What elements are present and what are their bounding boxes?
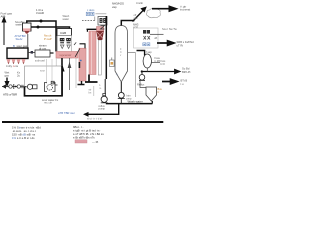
svg-text:aTB TBR ster: aTB TBR ster [58, 111, 75, 115]
component burner funnels under furnace [7, 59, 26, 64]
svg-text:vap: vap [112, 5, 117, 9]
svg-text:gas: gas [5, 75, 10, 78]
svg-text:s·: s· [100, 87, 102, 90]
component pink column B [89, 31, 96, 75]
wire thin riser with small up arrow [68, 58, 70, 90]
component blue condenser icons [86, 12, 94, 15]
svg-text:SRB s Fa8Tsd: SRB s Fa8Tsd [177, 40, 195, 44]
svg-text:b Fl: b Fl [161, 62, 166, 66]
svg-text:st ut ·tr ·t·d st·: st ut ·tr ·t·d st· [87, 118, 103, 121]
wire feed to small oval [137, 51, 145, 56]
component small marks before box on feed row [21, 84, 24, 86]
node legend pink swatch [75, 140, 87, 143]
wire wash water vertical [135, 53, 137, 98]
svg-text:SteAr: SteAr [16, 37, 23, 41]
wire V2 right to wash line [128, 52, 136, 54]
wire gray drop line [75, 58, 77, 88]
component C&B top box of column [57, 29, 72, 36]
component pump P1 under downcomer [101, 94, 108, 103]
component big pump box lower-left [25, 59, 63, 96]
svg-text:pmp: pmp [127, 97, 132, 100]
wire drum outlet tick [50, 52, 54, 54]
svg-text:— tB: — tB [92, 140, 98, 144]
svg-text:water: water [16, 23, 23, 27]
svg-text:s·Bt sBTs tBs sTs: s·Bt sBTs tBs sTs [73, 135, 95, 139]
wire black bracket feed into column A [80, 44, 86, 49]
component furnace box [7, 48, 28, 59]
svg-text:tr: tr [158, 90, 160, 94]
wire feed row left with components [2, 86, 26, 88]
wire left vertical with up arrow [2, 18, 6, 46]
wire dashed line to condensers [82, 20, 96, 22]
wire gray drop from bar left [55, 58, 57, 84]
svg-text:BtPLPt: BtPLPt [182, 70, 191, 74]
svg-text:3 AAR: 3 AAR [36, 11, 44, 15]
component small valve on wire [31, 51, 33, 54]
wire oval bottom to header [146, 68, 148, 72]
component small oval vessel [143, 54, 151, 68]
svg-text:water: water [63, 17, 70, 21]
wire main downcomer thick vertical [105, 16, 107, 79]
wire V1 bottom to furnace [27, 34, 29, 48]
svg-text:t u: t u [181, 82, 184, 86]
component pump P3 [139, 72, 145, 81]
svg-text:tr dB: tr dB [155, 59, 161, 63]
wire right thin line row [150, 33, 164, 35]
wire condenser drop [94, 17, 96, 21]
component pump icon 1 inside box [26, 84, 38, 89]
svg-text:sour: sour [40, 69, 45, 73]
component left arrowhead on feed row [2, 84, 6, 88]
wire V2 overhead to flare diagonal arrow [121, 7, 146, 25]
svg-text:B: B [13, 44, 15, 48]
svg-text:Reflux: Reflux [137, 83, 145, 87]
node junction dot reflux [141, 70, 143, 72]
svg-text:4 dry runs: 4 dry runs [6, 64, 19, 68]
svg-text:dr um: dr um [39, 46, 47, 50]
component big vessel V2 capsule [115, 26, 128, 83]
component tick and dot on feed row [13, 84, 15, 89]
svg-text:pump: pump [99, 108, 106, 111]
wire pentagon bottom to outlet line [151, 101, 153, 104]
wire black header over column B [87, 28, 99, 30]
svg-text:uB: uB [154, 36, 157, 40]
svg-text:Sou l Sw Tw: Sou l Sw Tw [162, 27, 177, 31]
svg-text:t incin: t incin [136, 1, 144, 5]
component small circle on feed row [9, 85, 12, 88]
component tray box above funnel [98, 17, 107, 30]
svg-text:sour gas: sour gas [17, 44, 28, 48]
component dark red funnel with X [96, 27, 104, 41]
svg-text:2u: 2u [17, 74, 20, 78]
node label left of P1 [93, 86, 95, 96]
node junction dot on line2 [37, 26, 40, 29]
wire black tee below column A [78, 81, 85, 85]
svg-text:1% s·tr·s·B sr t·ds: 1% s·tr·s·B sr t·ds [12, 136, 35, 140]
wire furnace to drum [28, 52, 35, 54]
wire small tick bottom of tower drop [55, 84, 58, 86]
component pink column A [79, 48, 86, 81]
component circle 2 on feed row [17, 85, 20, 88]
wire gray line condenser to downcomer [96, 13, 107, 15]
wire P1 outlet line to pentagon [106, 103, 153, 105]
svg-text:incinerat: incinerat [180, 8, 190, 12]
component column tower body [58, 36, 72, 59]
wire oval outlet right [152, 62, 161, 64]
wire line1 from V1 top to column [27, 21, 56, 52]
component gray detail box right [134, 28, 159, 48]
wire branch down and return to left arrow [88, 104, 119, 115]
wire reflux header with arrow [141, 69, 180, 73]
component tan icon left of V2 [110, 58, 115, 67]
component horizontal drum [35, 50, 50, 57]
component left arrowhead on return line [83, 112, 89, 117]
wire thick arrow lower right [162, 79, 178, 85]
wire bottom long divider line [2, 121, 163, 123]
wire P3 to pentagon [140, 81, 146, 88]
wire line2 from V1 right to column box [31, 27, 70, 35]
component cloud outline [146, 8, 160, 17]
component narrow white column [98, 40, 101, 75]
svg-text:P naP: P naP [44, 37, 52, 41]
component pump P2 under V2 [118, 82, 125, 104]
svg-text:C&B: C&B [60, 31, 66, 35]
svg-text:c dens: c dens [87, 9, 95, 12]
svg-text:regenerator: regenerator [60, 54, 72, 57]
wire thick arrow acid gas [157, 40, 175, 46]
svg-text:rec cle: rec cle [44, 101, 52, 105]
wire thick riser with up arrow below bar [60, 58, 64, 96]
svg-text:f sep: f sep [146, 50, 152, 54]
svg-text:uT Rt: uT Rt [177, 43, 184, 47]
vessel V1 small drum top-left [23, 23, 32, 34]
node black stub on column A edge [79, 62, 81, 68]
wire black inverted tee below column B [85, 75, 98, 83]
node junction dot on line1 [40, 20, 43, 23]
component pentagon shield vessel [146, 87, 157, 101]
wire down arrow into feed row [5, 78, 9, 87]
component tray stack icons inside tower [60, 38, 71, 49]
wire thick arrow to incinerator [152, 6, 177, 12]
component pink regenerator bar [56, 52, 78, 59]
svg-text:a dr uml: a dr uml [35, 59, 45, 63]
svg-text:ATB wTBR: ATB wTBR [3, 93, 17, 97]
component pump icon 2 inside box [45, 81, 56, 91]
